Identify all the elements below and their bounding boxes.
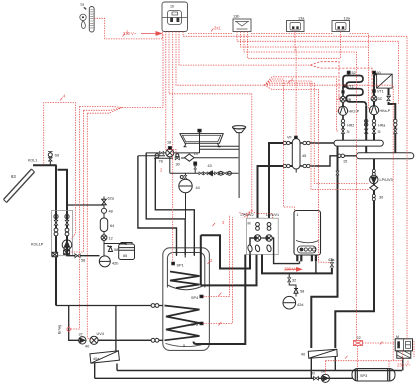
wire sep bottom right [300,156,356,166]
flow meter [64,250,70,254]
radiator 60 [377,74,393,88]
union sep top left [283,141,290,144]
valve 42a [330,259,333,268]
wire pump HKa jog [369,47,373,110]
valve 31b [365,129,368,133]
bathtub [180,134,223,147]
wire boiler left pipe [299,261,301,263]
wire HK red drops left [337,99,341,131]
svg-text:VT2: VT2 [347,85,354,89]
valve 31d [394,129,397,133]
funnel [233,126,246,198]
union 15 [337,154,344,157]
union sep bottom right [303,164,310,167]
wire manifold1 down long [311,146,337,348]
wire sep top right to manifold [300,142,334,144]
union HRa right [394,119,397,126]
wire bus y36 to right edge [183,32,407,339]
svg-text:KOL1: KOL1 [28,159,37,163]
svg-text:30: 30 [176,163,180,167]
mixing valve 3C [371,96,377,102]
LPUV group box [246,218,278,254]
svg-text:VF: VF [287,136,293,140]
svg-text:3I: 3I [378,130,381,134]
svg-text:VT1: VT1 [377,90,384,94]
air vent S9 [48,152,53,165]
wire bottom pipe upper [117,370,402,372]
fan right lower [264,77,393,361]
union right [65,228,69,236]
wire cold water drop [69,306,79,341]
wire manifold2 down long [335,159,374,348]
oval valve a [247,244,253,252]
svg-text:48: 48 [109,210,113,214]
svg-text:1b: 1b [170,5,174,9]
wire bottom red bus [325,341,414,374]
wire HK2 pump jog [338,96,340,111]
svg-text:32: 32 [292,279,296,283]
wire LPUV2 riser [258,166,293,218]
sensor VT2 [343,85,346,87]
svg-text:42d: 42d [297,303,303,307]
valve 50 [387,96,390,100]
wire LPUV drop left long [194,255,246,345]
union stub upper [151,304,159,308]
slash marks [60,29,383,359]
outdoor sensor 1a [80,7,94,33]
svg-text:62a: 62a [108,197,115,201]
svg-text:D7: D7 [194,152,199,156]
valve 31a [341,129,344,133]
wire 13b pin4 bus y58 [248,32,341,59]
svg-text:3B: 3B [347,98,352,102]
wire UV4 to tank [98,339,151,341]
union left [54,228,58,236]
L pipe 3 [138,156,177,255]
wire branch to 62a column [67,204,104,206]
svg-text:1: 1 [297,213,299,217]
expansion vessel 42d [283,293,296,309]
wire between mixing valves [261,237,266,239]
wire 13b pin2 bus y47 [241,32,369,48]
svg-text:60: 60 [377,71,381,75]
wire LPUV1 down to boiler main [262,255,332,274]
wire bottom pipe lower [95,377,353,379]
svg-text:1a: 1a [80,3,84,7]
wire UV2 left port [250,238,254,255]
wire station bottom out [67,254,100,255]
svg-text:HKa-P: HKa-P [380,109,391,113]
wire solar flow pipe [55,165,57,305]
svg-text:42a: 42a [328,258,335,262]
solar coil lower [165,306,200,341]
pump HKa-P [369,104,378,115]
tank inner dish line [167,285,204,290]
svg-text:230 V~: 230 V~ [284,267,298,272]
wire 40 left down [310,358,312,379]
mixing valve UV2 [254,235,260,241]
wire bus y33 controller to stats [188,34,369,48]
svg-text:HR2: HR2 [347,124,354,128]
wire 22 to M [363,342,395,344]
wire mixer sensor 18 drop [166,32,176,154]
valve 30b [314,377,319,381]
svg-text:44: 44 [196,186,200,190]
wire sensor 1a to controller [94,18,163,39]
thermometer right [65,214,69,218]
room stat 13a first [287,21,305,32]
sensor SP1 [172,262,175,265]
L pipe 1 [155,158,194,255]
wire C-pipe top run [201,235,250,268]
union LPUV2 [256,223,260,231]
sensor SP4 [200,295,203,298]
svg-text:42b: 42b [112,262,118,266]
svg-text:HK2-P: HK2-P [349,110,360,114]
svg-text:M: M [248,222,251,226]
tank inner vessel [167,253,204,288]
wire tank top stubs [177,248,195,258]
sensor 60 [373,71,376,75]
union HR2 left [341,119,344,126]
svg-text:58: 58 [114,248,118,252]
union above LPUV3 [372,169,375,175]
heat exchanger 40 [308,349,337,358]
svg-text:78: 78 [159,160,163,164]
pump 44 [179,173,192,219]
svg-text:SP1: SP1 [177,264,184,268]
svg-text:SP4: SP4 [191,296,198,300]
safety valve 58b [294,289,298,294]
svg-text:SP3: SP3 [360,374,367,378]
pump 2k [321,374,329,382]
svg-text:LP/UV2: LP/UV2 [241,213,254,217]
mixing valve 18 [166,147,174,157]
wire left fan b [71,106,122,329]
svg-text:30: 30 [311,372,315,376]
drain component station [52,252,58,256]
wire tank stub upper [56,305,163,307]
wire 40a left down [94,363,96,379]
L pipe 2 [146,153,185,255]
wire SP3 to M valve [402,358,404,370]
diamond LP/UV3 [370,185,378,191]
valve 32 [288,273,296,288]
wire radiator left pipe [374,74,377,140]
svg-text:40a: 40a [93,357,100,361]
svg-text:3I: 3I [347,130,350,134]
wire left fan d [87,108,122,341]
valve row 43 [170,171,239,176]
DHW coil upper [170,272,200,289]
wire radiator right leg [389,88,396,153]
valve left [54,220,58,225]
mixer out line [194,157,239,159]
wire to canister 65 [104,244,126,246]
arrow 230V boiler [297,268,302,272]
svg-text:65: 65 [123,254,127,258]
wire 40a right down [116,364,118,371]
svg-text:LP/UV3: LP/UV3 [380,178,393,182]
svg-text:58: 58 [81,259,85,263]
sensor stub row43 [194,162,197,173]
wire pin3b bus y93 [169,32,252,211]
union sep top right [303,141,310,144]
wire UV4 branch down [115,306,117,352]
fan right upper [310,62,372,100]
valve right [65,220,69,225]
wire 40 right down [334,357,336,371]
wire 13b pin1 bus y41 [237,32,399,105]
sensor F2 [342,91,344,93]
svg-text:40: 40 [301,353,305,357]
svg-text:13b: 13b [233,15,239,19]
thermometer left [54,214,58,218]
svg-text:S9: S9 [55,154,60,158]
mixer feed line b [138,155,165,157]
wire left fan out [122,34,163,108]
mixing valve 3B [340,96,346,102]
air separator 45 [292,136,300,172]
pump HK2-P [338,105,347,116]
svg-text:SP2: SP2 [191,323,198,327]
solar collector 63 [4,169,35,203]
svg-text:UV4: UV4 [97,332,104,336]
bath sensor pipe [198,129,201,153]
svg-text:52: 52 [352,71,356,75]
wire tank to LPUV2 [201,255,257,286]
svg-text:22: 22 [357,336,361,340]
wire pin4b bus y85 fanout [176,32,264,86]
mixer feed line a [146,152,166,154]
svg-text:30: 30 [379,196,383,200]
svg-text:58: 58 [300,290,304,294]
wire left fan c [71,108,123,253]
svg-text:5: 5 [183,344,185,348]
wire tank hot out C-pipe [200,235,202,285]
wire collector top pipe [33,164,57,166]
wire 13a1 pin [294,32,296,53]
arrow mains [156,32,162,36]
union stub lower [151,338,159,342]
wire solar sensor riser [44,103,76,240]
wire boiler right pipe [315,261,317,273]
wire 13b pin3 bus y52 [244,32,357,341]
sensor SP2 [200,322,203,325]
manifold lower [356,153,414,159]
valve 58 bottom [75,254,80,258]
svg-text:3C: 3C [378,97,383,101]
mixer out to tub [174,152,200,154]
svg-text:40: 40 [85,345,89,349]
manifold upper [334,140,383,146]
wire tank stub lower [98,339,163,341]
pump KOL1 P [62,240,72,250]
valve 22 [354,341,363,346]
svg-text:230 V~: 230 V~ [123,31,137,36]
valve on left drop [336,171,339,175]
sensor VT1 [373,90,376,92]
svg-text:HRa: HRa [378,124,385,128]
svg-text:45: 45 [302,154,306,158]
svg-text:12: 12 [109,237,113,241]
wire down to 42b [103,244,105,257]
pump 37 [79,337,86,344]
oval valve b [255,244,261,252]
pump LP/UV3 [370,175,378,183]
union HR2 right [364,119,367,126]
wire pin5 bus y65 fanout [179,32,310,66]
valve 12 [101,235,107,241]
svg-text:43: 43 [208,164,212,168]
check valve 62a [102,197,107,205]
svg-text:18: 18 [167,141,171,145]
wire LPUV1 riser [269,143,292,218]
sensor circle cold water [67,328,71,332]
svg-text:Br/wg: Br/wg [58,325,62,334]
tank bottom dish [166,343,207,346]
expansion vessel 42b [99,256,110,267]
svg-text:63: 63 [11,174,16,179]
mixing valve UV1 [266,235,272,241]
wire solar return pipe [58,170,68,256]
svg-text:230 V~: 230 V~ [397,363,411,368]
svg-text:13a: 13a [298,17,305,21]
safety valve 58a [108,245,113,252]
LPUV fan [239,211,272,219]
valve 30 [175,154,179,160]
svg-text:3x1: 3x1 [214,26,221,31]
pump station box KOL1P [52,211,73,256]
heating coil 52 [343,76,366,141]
boiler 1 [294,211,321,262]
wire SP4 to riser [203,215,229,296]
svg-text:M: M [396,335,399,339]
wire 13a2 pin [340,32,342,59]
valve 31c [372,129,375,133]
wire M pump [407,361,409,364]
sensor 52 [347,71,350,75]
controller box [162,2,188,32]
svg-text:50: 50 [387,94,391,98]
buffer SP3 [352,369,395,382]
union LPUV1 [267,223,271,231]
union HRa left [372,119,375,126]
wire SP2 to riser [203,217,232,323]
svg-text:LP/UV1: LP/UV1 [266,213,279,217]
svg-text:13a: 13a [344,17,351,21]
bath platform lines [199,146,239,149]
wire VF sensor [295,47,297,136]
svg-text:15: 15 [343,160,347,164]
wire 62a column [103,205,105,244]
thermostat box 13b [233,19,251,32]
mixer bottom line [154,157,185,173]
wire UV1 right port [272,238,299,264]
svg-text:KOL1P: KOL1P [31,243,44,247]
valve 78 [155,151,163,157]
storage tank outer [163,248,210,351]
svg-text:2k: 2k [321,370,325,374]
svg-text:64: 64 [110,224,114,228]
svg-text:37: 37 [79,333,83,337]
room stat 13a second [332,21,350,32]
canister 65 [119,243,135,260]
motor valve M [395,339,412,358]
oval valve c [266,244,272,252]
wire mains 230V arrow [141,33,159,35]
wire HK2 right leg [365,106,367,153]
union 30c2 [372,194,375,200]
wire SP sensor drop [172,32,174,263]
diamond D7 [185,154,195,161]
vessel 64 [100,218,107,232]
gauge 48 [102,208,107,213]
heat exchanger 40a [90,351,120,363]
valve UV4 [90,336,98,344]
union sep bottom left [283,164,290,167]
wire 230V boiler [285,268,299,270]
